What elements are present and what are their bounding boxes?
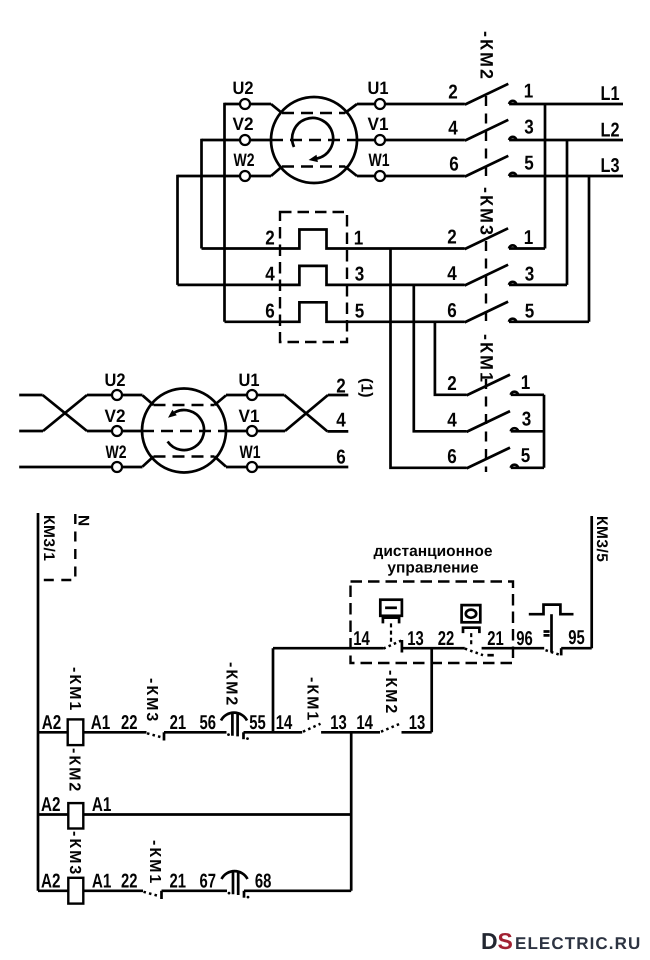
- KM2 timed blade dots: [227, 733, 230, 736]
- contactor KM1: [447, 334, 544, 472]
- wire row2 a: [38, 813, 68, 816]
- SB1 head rect: [380, 600, 402, 616]
- wire U2 down to link row 6: [223, 103, 226, 322]
- svg-text:V2: V2: [233, 114, 254, 134]
- SB2 head circle: [466, 610, 476, 618]
- SB1 stop pin tick: [401, 640, 404, 653]
- svg-text:13: 13: [407, 628, 424, 650]
- svg-text:22: 22: [438, 628, 455, 650]
- svg-text:4: 4: [447, 263, 457, 285]
- svg-text:A2: A2: [41, 794, 61, 816]
- svg-text:U1: U1: [239, 370, 260, 390]
- coil KM1: [68, 719, 84, 745]
- wire jog U left: [271, 104, 282, 113]
- KM2 pole 3 fixed contact arc: [509, 173, 516, 176]
- wire KM1 pole1 to star bus: [511, 393, 544, 396]
- svg-text:ELECTRIC.RU: ELECTRIC.RU: [515, 934, 641, 953]
- wire cross right a: [284, 395, 327, 431]
- KM1 pole 2 fixed contact arc: [511, 428, 518, 431]
- svg-text:21: 21: [169, 870, 186, 892]
- wire W2 down to link row 4: [176, 175, 179, 285]
- svg-text:U1: U1: [368, 78, 389, 98]
- wire link row3 drop to KM1 row4: [414, 285, 467, 431]
- KK actuator stem: [550, 614, 553, 652]
- svg-text:N: N: [75, 515, 92, 526]
- SB2 stem dashed: [470, 633, 472, 647]
- wire row2 b: [83, 813, 351, 816]
- wire U1 row right: [226, 394, 284, 397]
- wire row3 b: [83, 889, 143, 892]
- motor M1 rotation arrow: [292, 118, 333, 159]
- terminal U2: [240, 99, 250, 109]
- SB2 head rect: [462, 605, 481, 622]
- svg-text:2: 2: [447, 373, 457, 395]
- wire jog U left: [143, 395, 154, 405]
- svg-text:3: 3: [524, 117, 534, 139]
- svg-text:-КМ3: -КМ3: [143, 678, 160, 723]
- KM1 NC aux blade dotted: [144, 892, 160, 896]
- wire V1 row to KM2: [357, 139, 465, 142]
- motor M1 stator circle: [271, 97, 357, 183]
- node KM3/1 feeder bus: [37, 513, 40, 891]
- KM2 timed contact arc: [221, 713, 247, 721]
- link row 6-5 wire with jumper: [225, 302, 465, 322]
- control row 1: [38, 662, 432, 745]
- wire L1 drop to KM3 pin1: [544, 104, 547, 249]
- node N dashed feeder: [39, 514, 75, 580]
- wire row3 c: [162, 889, 228, 892]
- terminal W1: [247, 462, 257, 472]
- svg-text:(1): (1): [358, 378, 375, 398]
- KM2 pole 1 fixed contact arc: [509, 101, 516, 104]
- KM2 contact pole 3 blade: [465, 156, 509, 177]
- svg-text:55: 55: [249, 712, 266, 734]
- wire cross left a: [43, 395, 87, 431]
- svg-text:14: 14: [276, 712, 293, 734]
- KK heater bump: [529, 605, 574, 615]
- motor M2 winding V dashed: [142, 430, 226, 433]
- svg-text:L2: L2: [601, 120, 620, 142]
- svg-text:D: D: [481, 928, 498, 954]
- link row 2-1 wire with jumper: [202, 230, 465, 249]
- svg-text:13: 13: [409, 712, 426, 734]
- svg-text:A1: A1: [92, 870, 112, 892]
- svg-text:W1: W1: [369, 150, 390, 170]
- KM2 contact pole 1 blade: [465, 84, 509, 105]
- KM2 timed verticals row3: [233, 871, 238, 895]
- wire V2 stub: [202, 139, 272, 142]
- motor M2 stator circle: [142, 389, 226, 473]
- KM1 linkage dashed: [485, 379, 487, 472]
- svg-text:6: 6: [449, 154, 459, 176]
- svg-text:4: 4: [265, 264, 275, 286]
- wire jog W right: [345, 167, 357, 177]
- KM3 pole 1 fixed contact arc: [509, 245, 516, 248]
- KM3 contact pole 2 blade: [465, 265, 509, 286]
- terminal V1: [247, 426, 257, 436]
- svg-text:1: 1: [524, 81, 534, 103]
- coil KM2: [68, 803, 83, 828]
- KM1 NC stop tick: [160, 891, 163, 899]
- svg-text:2: 2: [448, 82, 458, 104]
- terminal U2: [112, 390, 122, 400]
- svg-text:3: 3: [525, 263, 535, 285]
- svg-text:22: 22: [121, 870, 138, 892]
- svg-text:5: 5: [525, 300, 535, 322]
- svg-text:21: 21: [170, 712, 187, 734]
- motor M2 winding W dashed: [154, 455, 215, 458]
- stop button SB1: [353, 600, 424, 653]
- terminal W2: [240, 171, 250, 181]
- KM2 timed contact arc row3: [222, 871, 248, 879]
- svg-text:V1: V1: [239, 406, 260, 426]
- svg-text:-КМ2: -КМ2: [477, 31, 497, 81]
- terminal U1: [375, 99, 385, 109]
- wire rail drop to row1 left: [272, 648, 275, 732]
- SB1 plunger bracket: [383, 618, 399, 624]
- wire V2 down to link row 2: [200, 139, 203, 249]
- svg-text:5: 5: [521, 445, 531, 467]
- wire jog U right: [345, 104, 357, 113]
- terminal V2: [112, 426, 122, 436]
- svg-text:-КМ1: -КМ1: [477, 334, 497, 384]
- thermal relay KK contact: [516, 605, 585, 656]
- wire W2 row left: [19, 466, 142, 469]
- KM3 pole 2 fixed contact arc: [509, 282, 516, 285]
- motor M2 alternative connection: [19, 370, 374, 473]
- wire pin4 out: [327, 430, 348, 433]
- svg-text:управление: управление: [387, 560, 479, 577]
- wire row1 f: [402, 731, 432, 734]
- SB2 blade extra dash: [487, 654, 493, 657]
- svg-text:1: 1: [521, 372, 531, 394]
- remote control dashed box: [351, 582, 514, 664]
- SB1 head bar: [385, 606, 397, 609]
- wire stub top left: [19, 394, 42, 397]
- wire W1 row to KM2: [357, 175, 465, 178]
- svg-text:67: 67: [199, 870, 216, 892]
- motor M2 winding U dashed: [154, 404, 215, 407]
- wire V1 row right: [226, 430, 285, 433]
- svg-text:6: 6: [265, 301, 275, 323]
- terminal V1: [375, 135, 385, 145]
- timed blade dots row3: [228, 892, 231, 895]
- svg-text:V1: V1: [368, 114, 389, 134]
- wire W2 stub: [178, 175, 272, 178]
- KM1 NO aux blade dotted: [303, 724, 321, 732]
- wire KM1 pole5 to star bus: [511, 466, 544, 469]
- svg-text:3: 3: [522, 408, 532, 430]
- KM2 NO aux blade dotted: [381, 724, 400, 732]
- svg-text:96: 96: [516, 628, 533, 650]
- svg-text:2: 2: [447, 227, 457, 249]
- KM2 pole 2 fixed contact arc: [509, 137, 516, 140]
- svg-text:2: 2: [265, 227, 275, 249]
- KM2 timed right tick: [242, 732, 245, 739]
- svg-text:-КМ3: -КМ3: [66, 831, 83, 876]
- svg-text:U2: U2: [105, 370, 126, 390]
- svg-text:L1: L1: [601, 83, 620, 105]
- svg-text:КМ3/1: КМ3/1: [40, 515, 57, 561]
- svg-text:56: 56: [200, 712, 217, 734]
- svg-text:1: 1: [524, 227, 534, 249]
- KM3 contact pole 1 blade: [465, 228, 509, 249]
- wire cross right b: [285, 395, 328, 431]
- wire L3: [509, 175, 623, 178]
- svg-text:КМ3/5: КМ3/5: [593, 516, 610, 562]
- coil KM3: [68, 878, 83, 904]
- KM3 NC stop tick: [163, 732, 166, 740]
- svg-text:6: 6: [447, 300, 457, 322]
- KM3 contact pole 3 blade: [465, 302, 509, 323]
- wire L2: [509, 139, 623, 142]
- wire row1 junction drop to row3: [350, 732, 353, 891]
- svg-text:-КМ1: -КМ1: [66, 667, 83, 712]
- KM1 contact pole 1 blade: [467, 375, 511, 396]
- SB2 plunger bracket: [463, 628, 479, 633]
- KM2 linkage dashed: [485, 96, 487, 181]
- svg-text:22: 22: [121, 712, 138, 734]
- link row 4-3 wire with jumper: [178, 266, 465, 285]
- wire pin6 out: [226, 466, 348, 469]
- svg-text:U2: U2: [233, 78, 254, 98]
- svg-text:6: 6: [336, 447, 346, 469]
- svg-text:-КМ1: -КМ1: [146, 840, 163, 885]
- SB1 NC blade dotted: [383, 641, 401, 649]
- svg-text:4: 4: [447, 409, 457, 431]
- wire row1 b: [83, 731, 146, 734]
- motor M1: [178, 78, 465, 183]
- KK right tick: [560, 648, 563, 655]
- svg-text:A2: A2: [42, 712, 62, 734]
- svg-text:13: 13: [330, 712, 347, 734]
- KK NC blade dotted: [546, 650, 562, 655]
- wire stub mid left: [19, 430, 43, 433]
- svg-text:A1: A1: [92, 794, 112, 816]
- wire row1 d: [244, 731, 303, 734]
- KM3 linkage dashed: [485, 241, 487, 327]
- svg-text:W2: W2: [106, 442, 127, 462]
- KM1 star point bus: [543, 395, 546, 468]
- svg-text:W2: W2: [234, 150, 255, 170]
- svg-text:W1: W1: [240, 442, 261, 462]
- wire rail drop to row1 right: [430, 648, 433, 732]
- timed right tick row3: [243, 891, 246, 898]
- svg-text:14: 14: [356, 712, 373, 734]
- wire row1 e: [321, 731, 380, 734]
- svg-text:A2: A2: [41, 870, 61, 892]
- wire L1: [509, 103, 623, 106]
- wire control top rail: [273, 647, 592, 650]
- motor M1 winding V dashed: [271, 139, 357, 142]
- svg-text:-КМ2: -КМ2: [382, 670, 399, 715]
- KM1 contact pole 2 blade: [467, 411, 511, 432]
- svg-text:14: 14: [353, 628, 370, 650]
- terminal W2: [112, 462, 122, 472]
- svg-text:S: S: [498, 928, 513, 954]
- SB1 stem dashed: [390, 623, 392, 644]
- KM1 pole 3 fixed contact arc: [511, 465, 518, 468]
- wire jog U right: [215, 395, 227, 405]
- node KM3/5 feeder bus: [590, 516, 593, 648]
- svg-text:1: 1: [354, 227, 364, 249]
- wire L3 drop to KM3 pin5: [588, 176, 591, 322]
- wire KM3 pole3 to L2 drop: [509, 284, 567, 287]
- wire KM1 pole3 to star bus: [511, 430, 544, 433]
- SB2 NO blade dotted: [465, 649, 483, 656]
- svg-text:6: 6: [447, 446, 457, 468]
- wire L2 drop to KM3 pin3: [566, 140, 569, 285]
- control row 2: [38, 748, 351, 829]
- control row 3: [38, 831, 351, 904]
- svg-text:дистанционное: дистанционное: [374, 543, 493, 560]
- svg-text:L3: L3: [601, 155, 620, 177]
- wire KM3 pole1 to L1 drop: [509, 247, 545, 250]
- start button SB2: [438, 605, 504, 655]
- svg-text:-КМ1: -КМ1: [304, 677, 321, 722]
- wire U2 stub: [225, 103, 272, 106]
- wire cross left b: [43, 395, 87, 431]
- KM2 timed contact verticals: [232, 713, 237, 737]
- wire U2 row left: [87, 394, 143, 397]
- terminal link box dashed: [280, 212, 347, 342]
- svg-text:21: 21: [487, 628, 504, 650]
- motor M2 rotation arrow: [168, 410, 204, 450]
- KM3 NC aux blade dotted: [147, 733, 163, 737]
- wire jog W left: [143, 457, 154, 467]
- wire row1 c: [164, 731, 227, 734]
- terminal V2: [240, 135, 250, 145]
- svg-text:2: 2: [336, 376, 346, 398]
- svg-text:-КМ2: -КМ2: [223, 662, 240, 707]
- wire jog W right: [215, 457, 227, 467]
- KM1 pole 1 fixed contact arc: [511, 392, 518, 395]
- svg-text:5: 5: [524, 153, 534, 175]
- svg-text:68: 68: [255, 870, 272, 892]
- wire V2 row left: [87, 430, 143, 433]
- wire jog W left: [271, 167, 282, 177]
- svg-text:5: 5: [355, 301, 365, 323]
- motor M1 winding U dashed: [282, 112, 345, 115]
- svg-text:-КМ2: -КМ2: [66, 748, 83, 793]
- wire link row5 drop to KM1 row2: [435, 322, 467, 395]
- motor M1 winding W dashed: [282, 165, 345, 168]
- wire pin2 out: [328, 394, 348, 397]
- wire KM3 pole5 to L3 drop: [509, 320, 589, 323]
- KM3 pole 3 fixed contact arc: [509, 319, 516, 322]
- KK release marks: [544, 632, 550, 636]
- svg-text:A1: A1: [91, 712, 111, 734]
- svg-text:-КМ3: -КМ3: [477, 187, 497, 237]
- contactor KM2: [448, 31, 623, 181]
- wire U1 row to KM2: [357, 103, 465, 106]
- wire link row1 drop to KM1 row6: [391, 249, 467, 468]
- terminal U1: [247, 390, 257, 400]
- wire row1 a: [38, 731, 68, 734]
- terminal W1: [375, 171, 385, 181]
- wire row3 d: [244, 889, 351, 892]
- contactor KM3: [447, 187, 589, 327]
- KM2 contact pole 2 blade: [465, 120, 509, 141]
- svg-text:V2: V2: [105, 406, 126, 426]
- svg-text:4: 4: [448, 118, 458, 140]
- wire row3 a: [38, 889, 68, 892]
- KM1 contact pole 3 blade: [467, 448, 511, 469]
- svg-text:4: 4: [336, 410, 346, 432]
- svg-text:3: 3: [355, 264, 365, 286]
- svg-text:95: 95: [568, 627, 585, 649]
- watermark DSelectric.ru: [481, 928, 641, 954]
